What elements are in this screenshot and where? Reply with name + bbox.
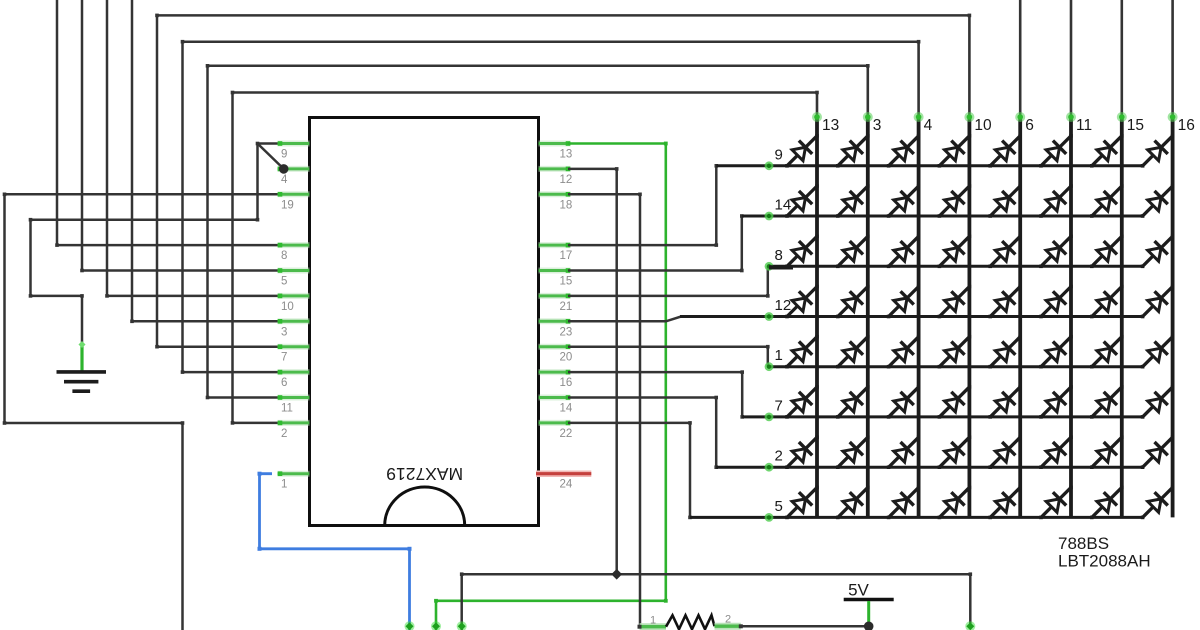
wire pin 2 / column 13 <box>233 93 818 423</box>
node matrix column pin 16 <box>1168 112 1178 122</box>
wire pin 13 CLK (green) to bottom header <box>436 144 666 630</box>
svg-text:11: 11 <box>1076 117 1092 134</box>
wire matrix row 8 <box>769 265 1143 268</box>
LED row2 col13 <box>785 435 819 469</box>
wire pin 21 to matrix row pin 8 <box>568 266 768 296</box>
node matrix row pin 1 <box>765 362 774 371</box>
svg-text:10: 10 <box>281 301 294 313</box>
LED row9 col10 <box>938 134 972 168</box>
pin 9 (left) of U1 <box>278 141 310 160</box>
LED row1 col10 <box>938 335 972 369</box>
svg-text:LBT2088AH: LBT2088AH <box>1058 552 1151 571</box>
LED row7 col4 <box>887 385 921 419</box>
svg-text:7: 7 <box>281 352 287 364</box>
pin 21 (right) of U1 <box>539 294 573 313</box>
svg-text:11: 11 <box>281 403 293 415</box>
pin 22 (right) of U1 <box>539 421 573 440</box>
node header pin (5V) <box>965 621 975 630</box>
wire matrix row 12 <box>680 315 1143 318</box>
svg-text:7: 7 <box>775 397 783 414</box>
node matrix column pin 6 <box>1015 112 1025 122</box>
svg-text:2: 2 <box>281 428 287 440</box>
svg-text:15: 15 <box>560 276 573 288</box>
wire matrix column 11 <box>1070 0 1073 118</box>
LED row9 col4 <box>887 134 921 168</box>
LED row14 col4 <box>887 184 921 218</box>
wire matrix column 6 <box>1019 0 1022 118</box>
LED row5 col11 <box>1039 486 1073 520</box>
LED row12 col6 <box>988 285 1022 319</box>
LED row5 col4 <box>887 486 921 520</box>
LED row9 col3 <box>836 134 870 168</box>
LED row1 col11 <box>1039 335 1073 369</box>
svg-text:9: 9 <box>775 146 783 163</box>
LED row2 col4 <box>887 435 921 469</box>
svg-text:12: 12 <box>775 297 792 314</box>
LED row12 col15 <box>1090 285 1124 319</box>
svg-text:788BS: 788BS <box>1058 534 1109 553</box>
LED row2 col16 <box>1141 435 1175 469</box>
wire pin 12 LOAD to 5V rail <box>568 169 617 574</box>
LED row12 col3 <box>836 285 870 319</box>
pin 2 (left) of U1 <box>278 421 310 440</box>
node matrix column pin 13 <box>812 112 822 122</box>
svg-text:24: 24 <box>560 479 573 491</box>
svg-text:9: 9 <box>281 149 287 161</box>
svg-text:3: 3 <box>873 117 882 134</box>
wire matrix row 9 <box>716 164 1142 167</box>
LED row14 col15 <box>1090 184 1124 218</box>
LED row1 col6 <box>988 335 1022 369</box>
LED row12 col13 <box>785 285 819 319</box>
wire matrix column 15 <box>1121 0 1124 118</box>
svg-text:22: 22 <box>560 428 573 440</box>
wire pin 11 / column 3 <box>208 66 868 398</box>
LED row8 col3 <box>836 235 870 269</box>
wire matrix row 7 <box>742 415 1142 418</box>
U1 pin-1 notch <box>385 487 465 526</box>
svg-text:5V: 5V <box>848 581 869 600</box>
svg-text:5: 5 <box>281 276 287 288</box>
LED row1 col16 <box>1141 335 1175 369</box>
LED row12 col4 <box>887 285 921 319</box>
junction node pins 4/9 (GND) <box>279 164 289 174</box>
wire pin 22 to matrix row pin 5 <box>568 423 769 518</box>
wire pin 23 to matrix row pin 12 <box>568 317 769 322</box>
LED row7 col13 <box>785 385 819 419</box>
wire R1 pin2 to 5V node <box>741 625 869 628</box>
svg-text:16: 16 <box>560 377 573 389</box>
wire matrix column 4 <box>917 42 920 118</box>
junction 5V node <box>864 622 874 630</box>
LED row14 col13 <box>785 184 819 218</box>
LED row1 col15 <box>1090 335 1124 369</box>
wire pin 15 to matrix row pin 14 <box>568 216 769 271</box>
wire matrix column 16 <box>1171 0 1174 118</box>
wire matrix column 3 <box>866 66 869 118</box>
LED row8 col13 <box>785 235 819 269</box>
LED row9 col11 <box>1039 134 1073 168</box>
LED row5 col16 <box>1141 486 1175 520</box>
node matrix row pin 2 <box>765 463 774 472</box>
junction LOAD wire on 5V rail <box>611 569 622 580</box>
node bottom header pin (CLK) <box>431 621 441 630</box>
wire pin 19 (V+) route to bottom edge <box>5 194 281 630</box>
wire pin9-pin4 diagonal jumper <box>258 144 284 169</box>
wire ground net from pins 9 and 4 <box>31 144 281 346</box>
svg-text:2: 2 <box>775 448 783 465</box>
LED row12 col11 <box>1039 285 1073 319</box>
LED row1 col13 <box>785 335 819 369</box>
svg-text:8: 8 <box>281 250 287 262</box>
svg-text:5: 5 <box>775 498 783 515</box>
wire matrix column 13 <box>816 93 819 118</box>
svg-text:1: 1 <box>775 347 783 364</box>
svg-text:13: 13 <box>822 117 839 134</box>
svg-text:21: 21 <box>560 301 573 313</box>
wire DIG wire to pin 5 <box>82 0 280 271</box>
svg-text:23: 23 <box>560 326 573 338</box>
pin 17 (right) of U1 <box>539 243 573 262</box>
pin 1 (left) of U1 <box>278 471 310 490</box>
svg-text:4: 4 <box>281 174 288 186</box>
LED row7 col15 <box>1090 385 1124 419</box>
LED row9 col13 <box>785 134 819 168</box>
power symbol 5V <box>844 581 894 627</box>
node matrix column pin 4 <box>914 112 924 122</box>
wire matrix row 1 <box>768 365 1143 368</box>
LED row8 col15 <box>1090 235 1124 269</box>
LED row5 col15 <box>1090 486 1124 520</box>
LED row14 col3 <box>836 184 870 218</box>
pin 12 (right) of U1 <box>539 167 573 186</box>
svg-text:6: 6 <box>1025 117 1034 134</box>
pin 16 (right) of U1 <box>539 370 573 389</box>
LED row9 col15 <box>1090 134 1124 168</box>
wire pin 1 DIN (blue) to bottom header <box>260 474 410 630</box>
wire matrix row 2 <box>716 466 1142 469</box>
wire matrix row 14 <box>742 215 1143 218</box>
pin 11 (left) of U1 <box>278 395 310 414</box>
LED row14 col6 <box>988 184 1022 218</box>
wire DIG wire to pin 10 <box>107 0 280 296</box>
pin 5 (left) of U1 <box>278 268 310 287</box>
pin 23 (right) of U1 <box>539 319 573 338</box>
wire row 8 doubled stub <box>769 265 793 269</box>
node matrix column pin 3 <box>863 112 873 122</box>
LED row7 col11 <box>1039 385 1073 419</box>
wire pin 20 to matrix row pin 1 <box>568 347 768 367</box>
pin 4 (left) of U1 <box>278 167 310 186</box>
wire DIG wire to pin 8 <box>57 0 280 245</box>
pin 20 (right) of U1 <box>539 344 573 363</box>
svg-text:8: 8 <box>775 247 783 264</box>
wire pin 6 / column 4 <box>183 42 919 372</box>
LED row8 col11 <box>1039 235 1073 269</box>
ground <box>57 341 107 391</box>
LED row2 col6 <box>988 435 1022 469</box>
node bottom header pin (left rail) <box>457 621 467 630</box>
svg-text:10: 10 <box>974 117 992 134</box>
node matrix row pin 8 <box>765 262 774 271</box>
pin 19 (left) of U1 <box>278 192 310 211</box>
LED row2 col15 <box>1090 435 1124 469</box>
wire pin 16 to matrix row pin 7 <box>568 372 769 417</box>
svg-text:6: 6 <box>281 377 287 389</box>
wire pin 14 to matrix row pin 2 <box>568 398 769 468</box>
LED row5 col13 <box>785 486 819 520</box>
LED row14 col16 <box>1141 184 1175 218</box>
node bottom header pin (DIN) <box>405 621 415 630</box>
LED row1 col3 <box>836 335 870 369</box>
pin 7 (left) of U1 <box>278 344 310 363</box>
pin 8 (left) of U1 <box>278 243 310 262</box>
LED row5 col10 <box>938 486 972 520</box>
wire pin 17 to matrix row pin 9 <box>568 166 769 245</box>
svg-text:18: 18 <box>560 199 573 211</box>
svg-text:2: 2 <box>725 614 731 626</box>
svg-text:16: 16 <box>1178 117 1195 134</box>
pin 15 (right) of U1 <box>539 268 573 287</box>
node matrix column pin 15 <box>1117 112 1127 122</box>
node matrix column pin 11 <box>1066 112 1076 122</box>
LED row8 col6 <box>988 235 1022 269</box>
wire rail right drop to VCC header pin <box>969 574 972 629</box>
pin 3 (left) of U1 <box>278 319 310 338</box>
svg-text:17: 17 <box>560 250 573 262</box>
node matrix row pin 9 <box>765 161 774 170</box>
LED row7 col3 <box>836 385 870 419</box>
svg-text:19: 19 <box>281 199 294 211</box>
svg-text:12: 12 <box>560 174 573 186</box>
wire matrix row 5 <box>690 516 1143 519</box>
svg-text:15: 15 <box>1127 117 1144 134</box>
LED row5 col6 <box>988 486 1022 520</box>
LED row8 col4 <box>887 235 921 269</box>
wire rail left drop to bottom header <box>460 574 463 630</box>
svg-text:3: 3 <box>281 326 287 338</box>
LED row14 col10 <box>938 184 972 218</box>
LED row1 col4 <box>887 335 921 369</box>
wire 5V rail y=574 <box>462 573 971 576</box>
pin 10 (left) of U1 <box>278 294 310 313</box>
svg-text:13: 13 <box>560 149 573 161</box>
pin 14 (right) of U1 <box>539 395 573 414</box>
svg-text:MAX7219: MAX7219 <box>386 464 463 484</box>
LED row8 col16 <box>1141 235 1175 269</box>
LED row12 col10 <box>938 285 972 319</box>
node matrix column pin 10 <box>964 112 974 122</box>
wire matrix column 10 <box>968 15 971 117</box>
wire pin 7 / column 10 <box>157 15 969 346</box>
node matrix row pin 5 <box>765 513 774 522</box>
pin 6 (left) of U1 <box>278 370 310 389</box>
pin 18 (right) of U1 <box>539 192 573 211</box>
LED row8 col10 <box>938 235 972 269</box>
LED row5 col3 <box>836 486 870 520</box>
LED row7 col10 <box>938 385 972 419</box>
svg-text:14: 14 <box>775 197 792 214</box>
wire pin 18 ISET to resistor R1 <box>568 194 640 626</box>
svg-text:1: 1 <box>650 615 656 627</box>
LED row2 col3 <box>836 435 870 469</box>
LED row9 col16 <box>1141 134 1175 168</box>
wire DIG wire to pin 3 <box>132 0 280 321</box>
pin 13 (right) of U1 <box>539 141 573 160</box>
op-amp U1 MAX7219 IC body <box>310 118 539 526</box>
node matrix row pin 12 <box>765 312 774 321</box>
node matrix row pin 14 <box>765 212 774 221</box>
LED row7 col16 <box>1141 385 1175 419</box>
LED row12 col16 <box>1141 285 1175 319</box>
LED row2 col11 <box>1039 435 1073 469</box>
svg-text:1: 1 <box>281 479 287 491</box>
resistor R1 <box>638 614 743 630</box>
LED row9 col6 <box>988 134 1022 168</box>
svg-text:4: 4 <box>924 117 933 134</box>
pin 24 (right) of U1 with unrouted red stub <box>536 474 591 491</box>
LED row14 col11 <box>1039 184 1073 218</box>
svg-text:20: 20 <box>560 352 573 364</box>
svg-text:14: 14 <box>560 403 573 415</box>
LED row7 col6 <box>988 385 1022 419</box>
node matrix row pin 7 <box>765 413 774 422</box>
LED row2 col10 <box>938 435 972 469</box>
